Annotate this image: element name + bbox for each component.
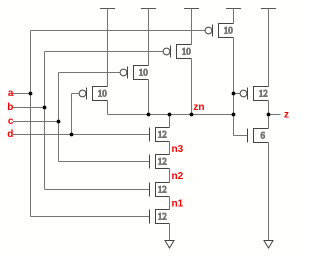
wire vdd stem to M0 source xyxy=(233,9,235,24)
svg-text:10: 10 xyxy=(182,47,192,57)
svg-text:10: 10 xyxy=(98,89,108,99)
transistor M6 nmos b xyxy=(150,183,170,197)
power VDD rail for M3 (pmos d column) xyxy=(100,8,115,10)
junction c xyxy=(57,120,61,124)
transistor M1 pmos b xyxy=(163,45,191,59)
junction zn / M1 drain xyxy=(190,113,194,117)
wire input d row to nmos M4 gate xyxy=(13,134,150,136)
wire input stub b xyxy=(13,107,45,109)
wire net c top run to M2 gate xyxy=(59,72,121,74)
wire zn rail to nmos stack top xyxy=(169,115,171,128)
wire M3 drain to zn rail xyxy=(107,101,109,115)
svg-text:a: a xyxy=(8,88,14,99)
junction zn / nmos stack xyxy=(168,113,172,117)
wire M9 source to ground xyxy=(268,143,270,241)
wire M8 drain to z node xyxy=(268,101,270,115)
wire vdd stem to M1 source xyxy=(191,9,193,45)
ground symbol (nmos stack) xyxy=(165,241,174,249)
svg-text:c: c xyxy=(8,116,14,127)
wire net d vertical xyxy=(71,94,73,135)
svg-text:z: z xyxy=(284,110,289,121)
wire net b top run to M1 gate xyxy=(45,51,164,53)
wire node n1 segment xyxy=(169,197,171,210)
svg-text:b: b xyxy=(7,102,13,113)
ground symbol (inverter) xyxy=(264,241,273,249)
wire inverter input tap to M9 gate xyxy=(234,135,248,137)
wire input stub c xyxy=(13,121,59,123)
transistor M8 pmos inverter xyxy=(240,87,268,101)
wire vdd stem to M8 source xyxy=(268,9,270,87)
transistor M4 nmos d (stack top) xyxy=(150,128,170,142)
wire net a bottom run to M7 gate xyxy=(31,216,150,218)
power VDD rail for M0 (pmos a column) xyxy=(226,8,241,10)
wire node n2 segment xyxy=(169,169,171,183)
wire input stub a xyxy=(13,93,31,95)
wire net b vertical xyxy=(44,52,46,190)
svg-text:10: 10 xyxy=(139,68,149,78)
wire M1 drain to zn rail xyxy=(191,59,193,115)
junction b xyxy=(43,106,47,110)
junction z / M8 M9 drains xyxy=(267,113,271,117)
transistor M0 pmos a (top) xyxy=(205,24,233,38)
wire net a vertical xyxy=(30,31,32,217)
junction d xyxy=(70,133,74,137)
wire node n3 segment xyxy=(169,142,171,155)
transistor M7 nmos a (stack bottom) xyxy=(150,210,170,224)
wire net c vertical xyxy=(58,73,60,162)
transistor M9 nmos inverter xyxy=(248,129,269,143)
junction inverter input / M8 gate xyxy=(232,92,236,96)
svg-text:zn: zn xyxy=(193,102,204,113)
transistor M5 nmos c xyxy=(150,155,170,169)
junction zn / M2 drain xyxy=(147,113,151,117)
wire vdd stem to M3 source xyxy=(107,9,109,87)
svg-text:6: 6 xyxy=(261,131,266,141)
junction zn / inverter input xyxy=(232,113,236,117)
wire net a top run to M0 gate xyxy=(31,30,206,32)
wire output stub z xyxy=(269,114,281,116)
power VDD rail for M1 (pmos b column) xyxy=(184,8,199,10)
wire net c bottom run to M5 gate xyxy=(59,161,150,163)
svg-text:10: 10 xyxy=(224,26,234,36)
power VDD rail for inverter pmos M8 xyxy=(261,8,276,10)
svg-text:n3: n3 xyxy=(172,144,184,155)
wire net d to M3 gate bubble xyxy=(72,93,79,95)
junction a xyxy=(29,92,33,96)
svg-text:12: 12 xyxy=(259,89,268,99)
wire inverter input tap to M8 gate bubble xyxy=(234,93,241,95)
wire M2 drain to zn rail xyxy=(148,80,150,115)
wire zn rail xyxy=(108,114,234,116)
wire vdd stem to M2 source xyxy=(148,9,150,66)
wire M7 source to ground xyxy=(169,224,171,241)
svg-text:d: d xyxy=(7,129,13,140)
wire M0 drain / inverter input vertical xyxy=(233,38,235,136)
svg-text:12: 12 xyxy=(158,185,167,195)
svg-text:12: 12 xyxy=(158,130,167,140)
svg-text:12: 12 xyxy=(158,212,167,222)
transistor M3 pmos d xyxy=(79,87,107,101)
svg-text:12: 12 xyxy=(158,157,167,167)
wire net b bottom run to M6 gate xyxy=(45,189,150,191)
power VDD rail for M2 (pmos c column) xyxy=(141,8,156,10)
svg-text:n1: n1 xyxy=(172,199,184,210)
transistor M2 pmos c xyxy=(120,66,148,80)
wire z node to M9 drain xyxy=(268,115,270,129)
svg-text:n2: n2 xyxy=(172,171,184,182)
